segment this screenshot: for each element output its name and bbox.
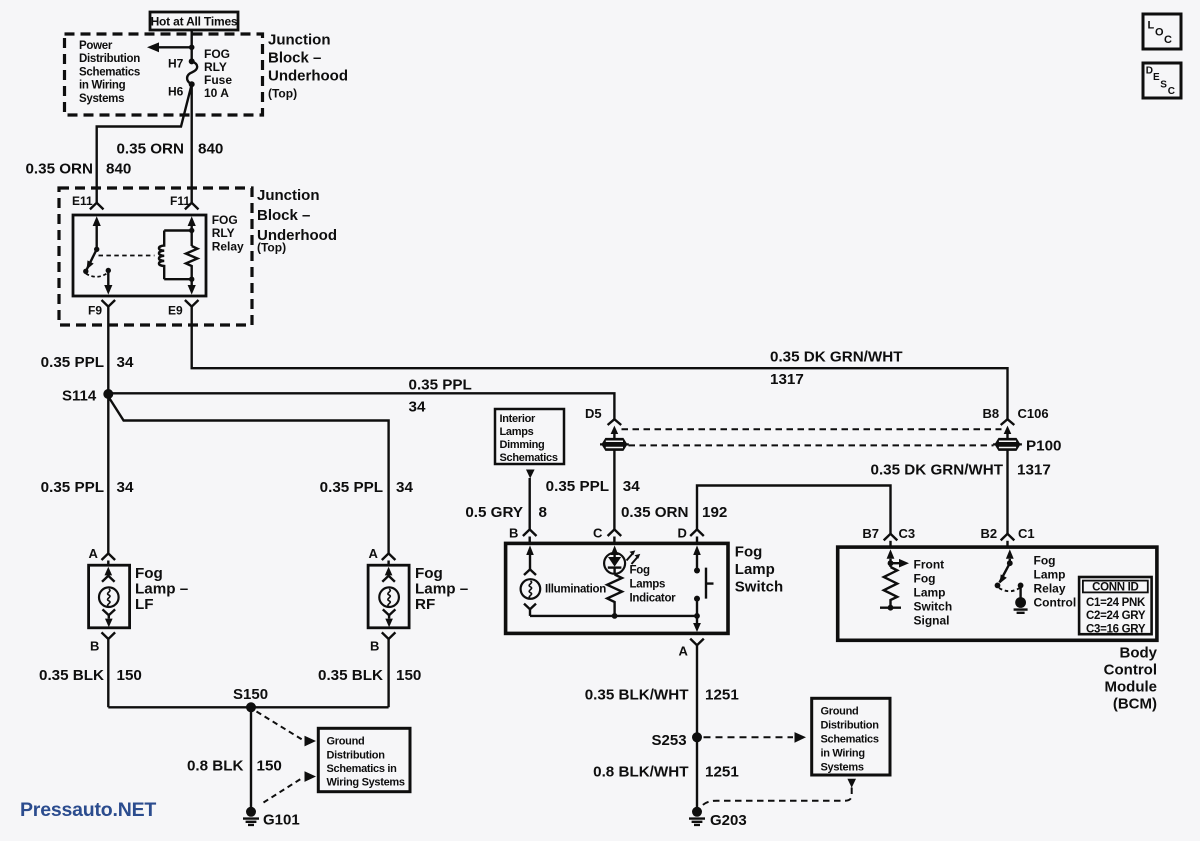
connector chevron A (RF) [382,553,396,560]
node S253 [692,732,702,742]
wire: S114 down to Fog Lamp LF [107,394,109,553]
svg-text:E11: E11 [72,194,93,208]
junction block 1 dashed box (Junction Block - Underhood) [65,34,263,115]
relay control contact dot left [995,583,1001,589]
fog lamp switch box [506,543,728,633]
svg-text:O: O [1155,27,1164,39]
wire: switch D up and over to BCM B7 [697,486,891,534]
svg-text:B: B [509,526,518,541]
ground G101 [243,807,259,825]
svg-text:C: C [1168,86,1175,97]
svg-text:1251: 1251 [705,764,739,781]
connector chevron B (switch) [523,529,537,536]
svg-text:34: 34 [117,354,134,371]
box: Interior Lamps Dimming Schematics [495,409,564,464]
BCM internal ground [1014,597,1028,613]
dashed pass-through line lower (P100 grommet) [629,444,994,446]
wire: switch A down to G203 [696,645,698,807]
svg-text:S150: S150 [233,686,268,703]
svg-text:0.35 ORN: 0.35 ORN [621,504,689,521]
svg-text:150: 150 [257,758,282,775]
LF lamp input arrow and chevron [105,567,113,576]
relay switch: E11 input arrow [95,224,97,249]
illumination bottom chevron and wire [524,604,536,610]
fuse FOG RLY 10A terminal H7 [189,58,195,64]
svg-text:A: A [679,644,689,659]
wire: fuse H6 to E11 [97,84,192,203]
switch lower contact dot [694,596,700,602]
fuse terminal H6 [189,81,195,87]
dashed arrow S150 to ground reference box [257,712,303,740]
fuse element [187,61,197,84]
switch lever [706,568,714,599]
svg-text:B2: B2 [981,526,998,541]
svg-text:F9: F9 [88,304,102,318]
wire: contact to F9 with down arrow [107,271,109,286]
junction block 2 dashed box (relay block) [59,188,252,325]
svg-text:34: 34 [396,479,413,496]
connector chevron C (switch) [608,529,622,536]
svg-text:S253: S253 [652,732,687,749]
wire: fuse H6 down to F11 [190,84,192,203]
connector chevron B (LF) [102,632,116,639]
relay coil bottom lead [164,278,192,280]
fog lamp LF box [89,565,130,628]
connector chevron A (LF) [102,553,116,560]
svg-text:E9: E9 [168,304,183,318]
wire: resistor to E9 with down arrow [190,279,192,285]
grommet pass-through at D5 [600,438,629,451]
relay switch contact dot [106,268,111,273]
wire: P100 down to B2 [1006,450,1008,533]
relay switch arm [86,249,97,271]
svg-text:(Top): (Top) [268,87,297,101]
wire: S150 ground bus [108,706,388,708]
svg-text:B: B [90,639,99,654]
junction dot indicator to bus [612,613,618,619]
svg-text:8: 8 [539,504,547,521]
wire: LF lamp to S150 bus [107,639,109,707]
arrow to power distribution schematics [156,46,192,48]
arrow from interior lamps box to B [526,470,535,479]
fog lamps indicator LED [604,553,625,575]
connector chevron B (RF) [382,632,396,639]
wire: RF lamp to S150 bus [387,639,389,707]
svg-text:150: 150 [117,667,142,684]
svg-text:B8: B8 [983,406,1000,421]
relay control switch pivot dot [1007,560,1013,566]
relay resistor [186,246,198,279]
svg-text:C106: C106 [1018,406,1049,421]
front fog lamp switch signal resistor [884,567,897,608]
LED light emission arrows [627,553,639,565]
relay switch arm end dot [83,269,88,274]
svg-text:0.35 ORN: 0.35 ORN [25,161,93,178]
svg-text:0.35 BLK/WHT: 0.35 BLK/WHT [585,687,690,704]
svg-text:0.35 PPL: 0.35 PPL [409,377,472,394]
svg-text:C: C [593,526,603,541]
switch upper contact dot [694,568,700,574]
node: Hot at All Times feed box [150,12,238,30]
svg-text:0.5 GRY: 0.5 GRY [465,504,523,521]
svg-text:34: 34 [409,399,426,416]
LED indicator input arrow (C) [611,545,619,555]
connector chevron D (switch) [690,529,704,536]
svg-text:1317: 1317 [1017,462,1051,479]
DESC reference box [1143,63,1181,98]
svg-text:192: 192 [702,504,727,521]
svg-text:Hot at All Times: Hot at All Times [151,15,238,29]
RF bulb [379,587,399,607]
RF lamp input arrow and chevron [385,567,393,576]
svg-text:0.8 BLK/WHT: 0.8 BLK/WHT [593,764,689,781]
node S114 [103,389,113,399]
wire: S114 branch to Fog Lamp RF [108,397,388,554]
svg-text:C1: C1 [1018,526,1035,541]
svg-text:C: C [1164,34,1172,46]
relay switch pivot dot [94,247,99,252]
relay F11 input arrow [190,224,192,246]
svg-text:0.35 DK GRN/WHT: 0.35 DK GRN/WHT [770,349,903,366]
arrow and dashed return path from box to G203 [847,779,856,788]
svg-text:34: 34 [623,478,640,495]
svg-text:FOGRLYFuse10 A: FOGRLYFuse10 A [204,47,232,100]
svg-text:P100: P100 [1026,438,1061,455]
indicator resistor [607,575,622,616]
svg-text:L: L [1148,20,1155,32]
svg-text:E: E [1153,72,1160,83]
svg-text:CONN ID: CONN ID [1092,581,1138,593]
svg-text:G101: G101 [263,812,300,829]
svg-text:0.35 PPL: 0.35 PPL [320,479,383,496]
svg-text:0.35 DK GRN/WHT: 0.35 DK GRN/WHT [871,462,1004,479]
CONN ID table [1079,577,1152,635]
dashed arrow S253 to ground reference box [704,736,794,738]
svg-text:Illumination: Illumination [545,584,606,596]
svg-text:840: 840 [106,161,131,178]
wire: S150 to G101 [250,707,252,807]
illumination bulb [521,579,541,599]
connector chevron B2 [1001,534,1015,541]
node dot at feed junction [189,45,195,51]
relay switch movement dashed arc [86,273,109,277]
box: Ground Distribution Schematics in Wiring Systems (right) [812,698,890,775]
relay coil top lead [164,229,192,231]
svg-text:(Top): (Top) [257,241,286,255]
connector chevron E11 [90,203,104,210]
dashed pass-through line upper (C106 connector) [622,428,1002,430]
fog lamp RF box [368,565,409,628]
wire to A output with down arrow [696,616,698,623]
svg-text:A: A [89,546,99,561]
relay control contact dot right [1018,583,1024,589]
wire: F9 to S114 [107,307,109,391]
svg-text:0.35 ORN: 0.35 ORN [116,141,184,158]
svg-text:0.35 PPL: 0.35 PPL [546,478,609,495]
svg-text:150: 150 [396,667,421,684]
svg-text:G203: G203 [710,812,747,829]
LF bulb lower chevron and out arrow [103,609,116,615]
svg-text:S: S [1160,80,1167,91]
svg-text:0.35 PPL: 0.35 PPL [41,354,104,371]
connector D5 chevron and arrow [608,419,622,425]
svg-text:0.35 BLK: 0.35 BLK [318,667,383,684]
node S150 [246,702,256,712]
relay box FOG RLY Relay [73,215,206,296]
connector chevron B7 [884,534,898,541]
wire lower contact to bus junction [696,599,698,616]
switch D input arrow [693,545,701,555]
svg-text:H7: H7 [168,57,184,71]
svg-text:34: 34 [117,479,134,496]
connector B8 chevron and arrow [1001,419,1015,425]
wire: D5 to switch terminal C [613,450,615,529]
wire contact to internal ground [1019,585,1021,598]
svg-text:H6: H6 [168,85,184,99]
svg-text:D5: D5 [585,406,602,421]
svg-text:B: B [370,639,379,654]
connector chevron E9 [185,300,199,307]
LF bulb [99,587,119,607]
svg-text:0.8 BLK: 0.8 BLK [187,758,244,775]
LOC reference box [1143,14,1181,49]
BCM B7 input arrow [887,549,895,559]
relay coil [159,231,164,280]
illumination input arrow (B) [526,545,534,555]
svg-text:1317: 1317 [770,371,804,388]
ground G203 [689,807,705,825]
connector chevron F11 [185,203,199,210]
svg-text:0.35 PPL: 0.35 PPL [41,479,104,496]
connector chevron F9 [102,300,116,307]
dashed arrow G101 to ground reference box [264,778,304,803]
grommet P100 [993,438,1022,451]
wire: S114 to D5 connector [108,393,614,419]
connector chevron A (switch) [690,639,704,646]
body control module box [838,547,1157,640]
relay control dashed arc [999,588,1020,591]
switch internal bottom bus wire [530,615,697,617]
svg-text:D: D [1146,65,1153,76]
BCM branch arrow right [888,560,894,566]
svg-text:D: D [678,526,687,541]
resistor terminal [888,605,894,611]
wire: E9 across top to B8 C106 [192,307,1008,420]
svg-text:A: A [369,546,379,561]
svg-text:1251: 1251 [705,687,739,704]
relay mechanical link dashed [99,255,155,257]
svg-text:S114: S114 [62,388,97,405]
BCM C1 input arrow [1006,549,1014,559]
RF bulb lower chevron and out arrow [383,609,396,615]
relay control switch arm [1000,563,1010,582]
box: Ground Distribution Schematics in Wiring Systems (left) [318,728,410,791]
wire: battery feed from Hot at All Times [190,30,192,61]
svg-text:C1=24 PNKC2=24 GRYC3=16 GRY: C1=24 PNKC2=24 GRYC3=16 GRY [1086,597,1146,635]
svg-text:B7: B7 [862,526,879,541]
svg-text:840: 840 [198,141,223,158]
svg-text:Pressauto.NET: Pressauto.NET [20,799,156,821]
svg-text:C3: C3 [899,526,916,541]
svg-text:0.35 BLK: 0.35 BLK [39,667,104,684]
